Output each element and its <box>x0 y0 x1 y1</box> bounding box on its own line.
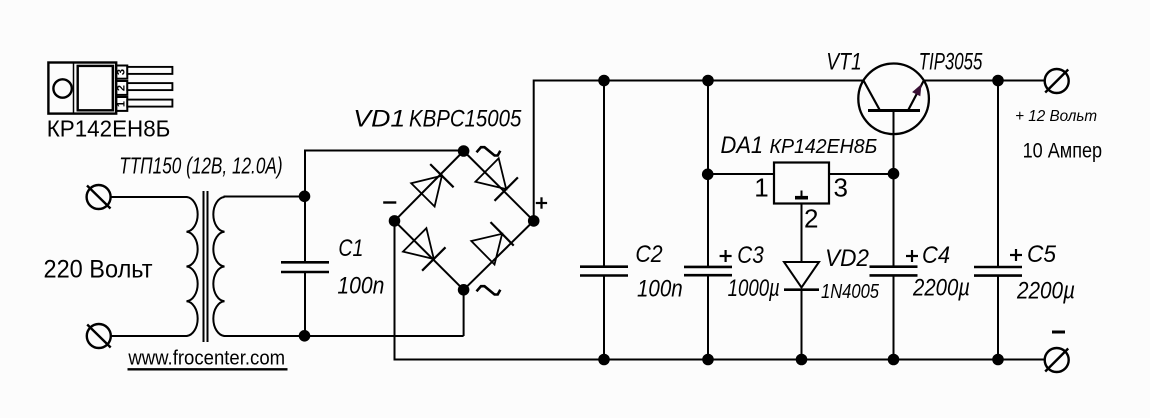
svg-text:10 Ампер: 10 Ампер <box>1023 140 1103 163</box>
wire bottom rail <box>395 359 1045 361</box>
svg-text:+ 12 Вольт: + 12 Вольт <box>1015 108 1097 125</box>
svg-text:2: 2 <box>804 204 818 234</box>
node bottom rail C4 <box>888 354 900 366</box>
edge B-R <box>464 221 534 290</box>
svg-text:C1: C1 <box>338 235 363 262</box>
edge T-R <box>464 151 534 221</box>
svg-text:КР142ЕН8Б: КР142ЕН8Б <box>47 116 171 142</box>
ac tilde top <box>477 147 501 155</box>
svg-text:2200µ: 2200µ <box>1016 278 1075 305</box>
svg-text:ТТП150 (12В, 12.0А): ТТП150 (12В, 12.0А) <box>119 153 282 179</box>
svg-text:1N4005: 1N4005 <box>821 280 879 303</box>
svg-text:1000µ: 1000µ <box>728 275 780 302</box>
node top rail C3 <box>702 75 714 87</box>
svg-text:КР142ЕН8Б: КР142ЕН8Б <box>770 136 878 158</box>
node bottom rail C3 <box>702 354 714 366</box>
node top rail C2 <box>598 75 610 87</box>
svg-text:C4: C4 <box>922 242 950 269</box>
svg-text:2200µ: 2200µ <box>912 275 970 302</box>
svg-text:1: 1 <box>116 101 128 107</box>
node bottom rail C2 <box>598 354 610 366</box>
wire secondary top to C1 node <box>224 196 306 198</box>
diode bottom-left <box>403 228 446 271</box>
wire DA1 pin1 <box>708 173 774 175</box>
plus C3 <box>720 255 732 257</box>
svg-text:C3: C3 <box>737 242 764 269</box>
wire top rail right <box>924 80 1045 82</box>
wire to bridge top <box>304 150 464 152</box>
svg-text:220 Вольт: 220 Вольт <box>44 255 154 283</box>
svg-text:www.frocenter.com: www.frocenter.com <box>127 347 285 370</box>
node bridge top <box>458 145 470 157</box>
capacitor C4 <box>870 267 918 360</box>
node C1 bottom <box>299 330 311 342</box>
node pin3 base <box>888 168 900 180</box>
wire input bottom <box>111 335 188 337</box>
svg-text:DA1: DA1 <box>721 132 764 159</box>
svg-text:KBPC15005: KBPC15005 <box>409 106 522 133</box>
svg-text:VD2: VD2 <box>825 245 869 272</box>
wire base down <box>893 111 895 267</box>
plus sign <box>536 202 547 204</box>
regulator DA1 box <box>774 163 829 204</box>
wire minus node down <box>394 221 396 361</box>
label minus output <box>1052 331 1065 334</box>
svg-text:TIP3055: TIP3055 <box>919 48 983 75</box>
terminal input top <box>87 185 111 209</box>
wire secondary bottom to bridge <box>224 335 464 337</box>
wire top rail left <box>534 80 864 82</box>
node C1 top <box>299 191 311 203</box>
node top rail C5 <box>992 75 1004 87</box>
wire DA1 pin2 down <box>801 204 803 262</box>
node bridge bottom <box>458 284 470 296</box>
node pin1 tap <box>702 169 714 181</box>
svg-text:3: 3 <box>116 69 128 75</box>
wire input top <box>111 196 188 198</box>
capacitor C2 <box>580 81 628 360</box>
capacitor C3 <box>684 81 732 360</box>
wire C1 node up <box>304 151 306 197</box>
edge L-T <box>395 151 464 221</box>
IC package KP142EH8B (TO-220 drawing) <box>48 63 172 114</box>
wire bridge bottom vertical <box>463 290 465 336</box>
ac tilde bottom <box>477 286 501 294</box>
diode VD2 <box>784 262 819 360</box>
terminal output plus <box>1045 69 1069 93</box>
svg-text:1: 1 <box>754 172 768 202</box>
terminal output minus <box>1045 348 1069 372</box>
svg-text:C5: C5 <box>1027 241 1057 268</box>
node bottom rail VD2 <box>796 354 808 366</box>
capacitor C5 <box>974 81 1022 360</box>
minus sign <box>383 201 396 203</box>
wire plus node up <box>533 80 535 221</box>
svg-text:VT1: VT1 <box>826 49 861 76</box>
plus C5 <box>1010 254 1022 256</box>
svg-text:100n: 100n <box>637 276 683 303</box>
svg-text:100n: 100n <box>337 273 384 300</box>
svg-text:VD1: VD1 <box>353 106 405 133</box>
node bottom rail C5 <box>992 354 1004 366</box>
svg-text:3: 3 <box>833 172 847 202</box>
diode top-left <box>411 164 453 206</box>
node bridge right <box>528 215 540 227</box>
svg-text:C2: C2 <box>635 241 662 268</box>
plus C4 <box>906 255 918 257</box>
wire DA1 pin3 <box>829 173 894 175</box>
diode top-right <box>475 158 518 201</box>
node bridge left <box>389 215 401 227</box>
edge L-B <box>395 221 464 290</box>
terminal input bottom <box>87 324 111 348</box>
transistor VT1 <box>858 64 929 135</box>
capacitor C1 <box>281 197 329 337</box>
transformer T1 <box>187 191 225 342</box>
svg-text:2: 2 <box>116 85 128 91</box>
bridge rectifier VD1 <box>383 145 547 295</box>
diode bottom-right <box>471 222 513 264</box>
